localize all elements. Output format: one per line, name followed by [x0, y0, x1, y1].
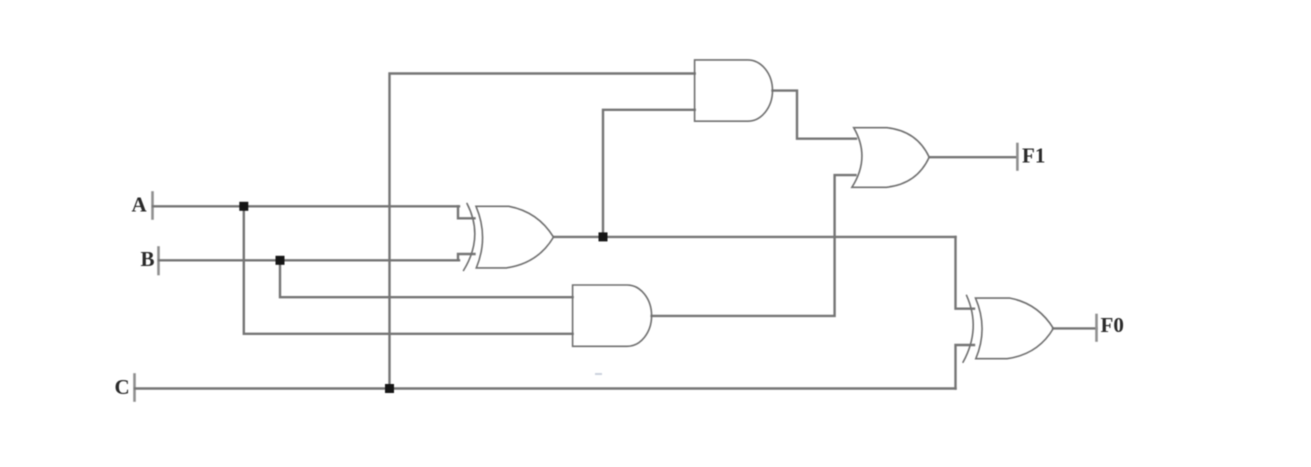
- wire B jog into XOR U1 pin 2: [458, 254, 475, 260]
- svg-text:C: C: [115, 375, 130, 399]
- and gate U2: [695, 60, 773, 121]
- wire C horizontal: [135, 387, 956, 389]
- junction dot on node S: [599, 232, 608, 241]
- junction dot on wire B: [276, 256, 285, 265]
- wire node S down to XOR U5 pin 1: [956, 237, 975, 309]
- wire AND U2 output to OR U4 pin 1: [773, 91, 857, 139]
- wire B branch down to AND U3 pin 1: [280, 260, 573, 297]
- xor gate U1 input arc: [464, 204, 475, 271]
- wire B horizontal: [159, 259, 459, 261]
- output terminal F0: [1095, 315, 1098, 341]
- wire C branch up to AND U2 pin 1: [390, 74, 695, 389]
- or gate U4: [852, 128, 929, 188]
- and gate U3: [573, 285, 652, 346]
- wire XOR U1 output to node S: [554, 236, 956, 238]
- input terminal C: [133, 375, 136, 401]
- junction dot on wire A: [239, 202, 248, 211]
- svg-text:F0: F0: [1101, 313, 1124, 337]
- svg-text:B: B: [141, 247, 155, 271]
- wire A horizontal: [153, 205, 459, 207]
- svg-text:A: A: [132, 193, 148, 217]
- svg-text:F1: F1: [1022, 143, 1045, 167]
- wire A jog into XOR U1 pin 1: [458, 206, 475, 218]
- input terminal A: [151, 193, 154, 219]
- input terminal B: [157, 248, 160, 275]
- wire XOR U5 output to terminal F0: [1053, 327, 1097, 329]
- wire OR U4 output to terminal F1: [929, 156, 1017, 158]
- xor gate U1 body: [476, 206, 554, 268]
- wire node S branch up to AND U2 pin 2: [603, 110, 695, 237]
- wire AND U3 output to OR U4 pin 2: [652, 175, 856, 316]
- output terminal F1: [1016, 144, 1019, 170]
- stray mark: [595, 373, 602, 375]
- wire A branch down to AND U3 pin 2: [244, 206, 573, 333]
- wire C up to XOR U5 pin 2: [956, 345, 975, 389]
- junction dot on wire C: [385, 384, 394, 393]
- xor gate U5 body: [976, 298, 1054, 359]
- xor gate U5 input arc: [963, 295, 973, 362]
